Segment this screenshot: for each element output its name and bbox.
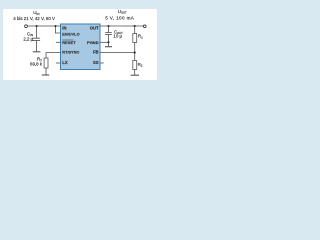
svg-text:SS: SS — [93, 60, 99, 65]
terminal: input — [25, 25, 28, 28]
terminal: output — [143, 25, 146, 28]
svg-text:4 bis 21 V, 42 V, 60 V: 4 bis 21 V, 42 V, 60 V — [13, 16, 55, 21]
node: C_IN tap on input rail — [36, 25, 38, 27]
wire: LX stub — [56, 62, 61, 64]
svg-text:PGND: PGND — [87, 40, 99, 45]
resistor R1 body — [133, 34, 137, 43]
wire: R2 bottom lead — [134, 70, 136, 76]
resistor R2 body — [133, 61, 137, 70]
node: FB tap on divider — [134, 52, 136, 54]
wire: C_OUT bottom lead to ground — [108, 35, 110, 47]
ground below RT — [42, 74, 49, 76]
wire: RT/SYNC to RT resistor — [46, 53, 61, 58]
wire: RESET stub — [56, 41, 61, 43]
wire: input rail from terminal to IN pin — [27, 25, 60, 27]
capacitor C2 C_OUT plates — [105, 33, 112, 35]
svg-text:LX: LX — [62, 60, 68, 65]
ground below C_OUT — [105, 46, 112, 48]
wire: R1 top lead — [134, 26, 136, 34]
wire: SS stub — [100, 62, 104, 64]
wire: PGND to C_OUT ground node — [100, 41, 109, 43]
wire: C_OUT top lead — [108, 26, 110, 32]
svg-text:RT/SYNC: RT/SYNC — [62, 50, 79, 55]
resistor RT body — [44, 58, 48, 68]
svg-text:5 V, 100 mA: 5 V, 100 mA — [105, 15, 135, 20]
svg-text:OUT: OUT — [90, 25, 99, 30]
svg-text:2,2 µ: 2,2 µ — [23, 36, 33, 41]
ground below R2 — [131, 74, 139, 76]
wire: R1 bottom to R2 top through FB node — [134, 43, 136, 61]
svg-text:10 µ: 10 µ — [113, 33, 122, 38]
page background — [0, 0, 160, 90]
IC U1 module body — [61, 24, 101, 70]
wire: output rail OUT pin to terminal — [100, 25, 143, 27]
svg-text:69,8 k: 69,8 k — [30, 61, 43, 66]
white panel — [3, 9, 157, 80]
wire: FB wire to divider node — [100, 52, 135, 54]
RESET overline — [62, 39, 73, 41]
wire: C_IN top lead — [36, 26, 38, 38]
node: PGND tap on C_OUT ground lead — [107, 41, 109, 43]
ground below C_IN — [33, 51, 41, 53]
svg-text:RESET: RESET — [62, 40, 76, 45]
svg-text:IN: IN — [62, 25, 66, 30]
node: R1 tap on output rail — [134, 25, 136, 27]
wire: RT resistor bottom lead — [45, 68, 47, 75]
wire: C_IN bottom lead — [36, 41, 38, 52]
svg-text:R1: R1 — [138, 34, 143, 40]
node: EN/UVLO tap on input rail — [54, 25, 56, 27]
svg-text:R2: R2 — [138, 62, 143, 68]
capacitor C1 C_IN plates — [32, 38, 40, 40]
node: C_OUT tap on output rail — [107, 25, 109, 27]
wire: EN/UVLO drop from rail — [56, 26, 61, 33]
svg-text:FB: FB — [93, 50, 99, 55]
svg-text:EN/UVLO: EN/UVLO — [62, 32, 79, 37]
